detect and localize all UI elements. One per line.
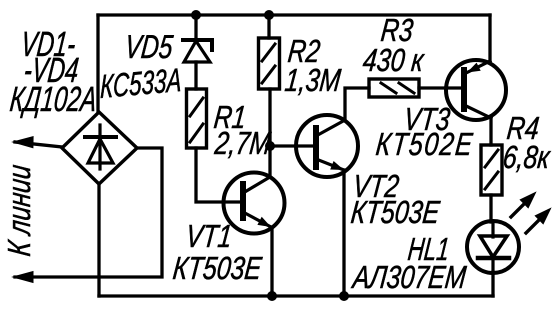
wire bridge left vertex to upper line arrow xyxy=(15,142,62,147)
transistor VT3 xyxy=(446,60,506,120)
wire VT2 collector up and right to R3 xyxy=(345,88,369,120)
transistor VT2 xyxy=(270,115,358,177)
svg-text:АЛ307ЕМ: АЛ307ЕМ xyxy=(349,260,467,296)
label VT3 xyxy=(402,102,452,138)
arrow LED emission 2 xyxy=(526,209,550,233)
label VT1 xyxy=(184,219,234,255)
label R1 xyxy=(212,100,248,136)
label VT2 xyxy=(351,169,401,205)
label 1,3M value of R2 xyxy=(283,63,342,99)
wire HL1 to bottom rail xyxy=(491,272,494,296)
bridge rectifier VD1-VD4 xyxy=(62,112,137,184)
svg-text:6,8к: 6,8к xyxy=(501,140,552,176)
label R4 xyxy=(505,111,541,147)
wire bottom rail xyxy=(99,294,493,297)
resistor R4 xyxy=(481,145,502,195)
svg-text:КТ503Е: КТ503Е xyxy=(171,251,264,287)
label KD102A value of bridge xyxy=(8,81,98,119)
resistor R1 xyxy=(187,89,207,148)
label KC533A value of VD5 xyxy=(100,62,182,107)
svg-text:VT1: VT1 xyxy=(184,219,234,255)
node junction dot VD5 on top rail xyxy=(191,10,201,20)
svg-text:К линии: К линии xyxy=(2,163,38,258)
zener diode VD5 xyxy=(183,15,212,89)
label 6,8k value of R4 xyxy=(501,140,552,176)
wire right drop from top rail to VT3 emitter xyxy=(488,15,491,61)
svg-text:VD5: VD5 xyxy=(123,30,175,66)
resistor R3 xyxy=(369,79,419,97)
arrow upper to line xyxy=(13,137,33,148)
node junction dot R2/VT1/VT2 xyxy=(265,141,275,151)
label AL307EM value of HL1 xyxy=(349,260,467,296)
resistor R2 xyxy=(259,38,280,89)
svg-text:КТ503Е: КТ503Е xyxy=(349,195,442,231)
svg-text:2,7М: 2,7М xyxy=(212,126,272,162)
arrow lower to line xyxy=(13,272,33,283)
node junction dot VT1 emitter on bottom rail xyxy=(267,291,277,301)
wire top rail xyxy=(98,13,490,16)
label R2 xyxy=(286,34,322,70)
label KT502E value of VT3 xyxy=(374,127,475,163)
wire VT2 emitter to bottom rail xyxy=(342,170,345,296)
LED HL1 xyxy=(467,221,519,273)
wire bridge bottom vertex down to bottom rail xyxy=(97,184,100,296)
label KT503E value of VT2 xyxy=(349,195,442,231)
label VD1- xyxy=(19,26,77,64)
wire R4 to HL1 xyxy=(489,195,492,222)
transistor VT1 xyxy=(224,173,285,234)
wire left drop from top rail to bridge top xyxy=(96,15,99,112)
svg-text:КТ502Е: КТ502Е xyxy=(374,127,475,163)
label KT503E value of VT1 xyxy=(171,251,264,287)
svg-text:1,3М: 1,3М xyxy=(283,63,342,99)
arrow LED emission 1 xyxy=(511,193,535,217)
wire R3 right to VT3 base xyxy=(419,86,464,89)
node junction dot R2 on top rail xyxy=(264,10,274,20)
wire VT1 emitter to bottom rail xyxy=(270,227,273,296)
wire R2 top to rail xyxy=(267,15,270,38)
wire VT3 collector to R4 xyxy=(489,118,492,145)
label 430k value of R3 xyxy=(361,43,426,79)
label 2,7M value of R1 xyxy=(212,126,272,162)
label R3 xyxy=(379,13,415,49)
label VD5 xyxy=(123,30,175,66)
wire R2 bottom through node to VT1 collector xyxy=(268,89,271,176)
wire bridge right vertex down to lower line arrow xyxy=(15,148,162,277)
svg-text:КС533А: КС533А xyxy=(100,62,182,107)
wire R1 bottom to VT1 base xyxy=(196,148,242,202)
node junction dot VT2 emitter on bottom rail xyxy=(339,291,349,301)
label K linii xyxy=(2,163,38,258)
label -VD4 xyxy=(22,52,80,90)
svg-text:КД102А: КД102А xyxy=(8,81,98,119)
label HL1 xyxy=(406,231,451,267)
svg-text:430 к: 430 к xyxy=(361,43,426,79)
